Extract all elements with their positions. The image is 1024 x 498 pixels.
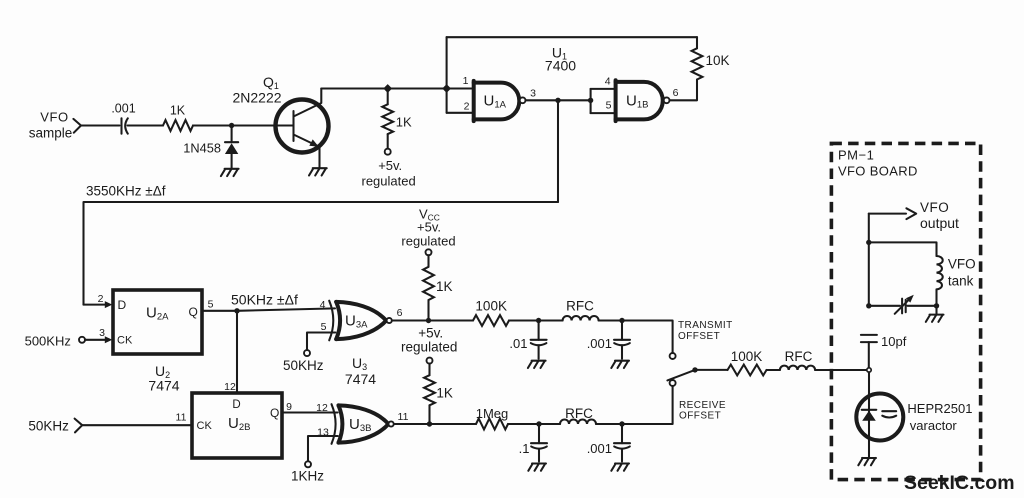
svg-text:RFC: RFC (566, 298, 594, 313)
capacitor .1 (538, 424, 540, 443)
wire switch arm (667, 370, 695, 381)
svg-text:100K: 100K (731, 349, 763, 364)
wire U2A pin3 CK (85, 339, 105, 341)
resistor 1Meg (476, 419, 508, 430)
wire R1 to Q1 base (193, 124, 293, 126)
wire 3550KHz rail (84, 202, 559, 305)
wire 1K to node lower (428, 405, 430, 424)
wire collector rail (321, 87, 473, 89)
node feedback junction (442, 84, 451, 93)
svg-text:varactor: varactor (910, 418, 958, 433)
wire node to diode (231, 126, 233, 142)
wire RFC into board (815, 369, 867, 371)
svg-text:50KHz ±Δf: 50KHz ±Δf (231, 292, 298, 308)
ground .001 transmit (611, 361, 629, 368)
svg-text:5: 5 (208, 299, 214, 311)
svg-text:6: 6 (397, 307, 403, 319)
node U1B output bubble (664, 97, 670, 103)
node U1B input junction (588, 98, 593, 103)
wire R2 to +5v terminal (387, 134, 389, 149)
wire feedback top (447, 36, 697, 38)
wire U2A pin2 D (84, 304, 106, 306)
wire junction to varactor (868, 372, 870, 457)
svg-text:1K: 1K (436, 279, 453, 294)
wire 1Meg to RFC (508, 423, 560, 425)
svg-text:10pf: 10pf (881, 334, 907, 349)
wire U3B pin13 (308, 436, 338, 461)
svg-text:sample: sample (29, 126, 73, 141)
wire U1B pin4 (591, 88, 616, 90)
svg-text:.001: .001 (587, 441, 612, 456)
svg-text:4: 4 (320, 299, 326, 311)
svg-text:D: D (118, 298, 127, 312)
node varactor junction (867, 368, 871, 372)
wire VFO output arrow (869, 213, 906, 215)
svg-text:50KHz: 50KHz (28, 419, 69, 434)
wire node to R2 (387, 89, 389, 105)
svg-text:OFFSET: OFFSET (678, 331, 720, 342)
capacitor .001 input (120, 118, 122, 133)
svg-text:5: 5 (606, 100, 612, 112)
inductor VFO tank (937, 256, 943, 289)
resistor 1K pullup (382, 104, 393, 134)
ground tank (935, 306, 937, 315)
flip-flop U2B (192, 393, 282, 458)
inductor RFC transmit (563, 316, 599, 321)
node .1 junction (536, 421, 541, 426)
svg-text:D: D (232, 399, 240, 411)
node switch transmit contact (670, 353, 676, 359)
resistor 1K vcc lower (424, 375, 435, 405)
svg-text:1Meg: 1Meg (476, 406, 509, 421)
svg-text:.001: .001 (111, 102, 135, 116)
wire U2A Q out (202, 308, 335, 310)
svg-text:5: 5 (321, 321, 327, 333)
svg-text:VFO: VFO (40, 110, 69, 125)
svg-text:10K: 10K (706, 53, 730, 68)
wire Vcc to 1K upper (427, 255, 429, 266)
node +5v terminal Q1 (385, 149, 391, 155)
capacitor 10pf (861, 335, 877, 342)
node Vcc terminal upper (426, 249, 432, 255)
svg-text:.001: .001 (587, 336, 612, 351)
node junction base/diode (229, 123, 234, 128)
svg-text:.1: .1 (519, 441, 530, 456)
node U1A output bubble (520, 97, 526, 103)
resistor 100K transmit (473, 315, 509, 326)
svg-text:7474: 7474 (345, 371, 376, 387)
op-amp U1B nand gate (616, 82, 663, 120)
node .001 junction transmit (619, 318, 624, 323)
node receive rail junction (427, 421, 432, 426)
capacitor .001 transmit (621, 321, 623, 340)
svg-text:6: 6 (673, 87, 679, 99)
svg-text:7474: 7474 (148, 378, 179, 394)
node .001 junction receive (619, 421, 624, 426)
node U3A output bubble (387, 318, 392, 323)
svg-text:11: 11 (398, 411, 409, 423)
capacitor .01 (538, 321, 540, 340)
node tank bottom junction (934, 303, 939, 308)
svg-text:SeekIC.com: SeekIC.com (904, 472, 1015, 494)
node pullup junction (383, 84, 392, 93)
ground .001 receive (611, 464, 629, 471)
wire C1 to R1 (128, 124, 164, 126)
ground emitter (309, 168, 327, 175)
op-amp U1A nand gate (474, 83, 520, 120)
svg-text:Q: Q (189, 305, 198, 319)
svg-text:+5v.: +5v. (378, 158, 402, 173)
wire 100K to RFC (509, 319, 563, 321)
svg-text:7400: 7400 (545, 58, 576, 74)
svg-text:4: 4 (605, 76, 611, 88)
svg-text:11: 11 (176, 412, 187, 424)
svg-text:regulated: regulated (401, 234, 455, 249)
wire 10pf bottom (868, 342, 870, 368)
inductor RFC receive (560, 420, 596, 425)
node switch receive contact (670, 380, 676, 386)
inductor RFC output (780, 366, 815, 370)
transistor Q1 2N2222 (276, 100, 329, 153)
svg-text:+5v.: +5v. (418, 325, 443, 340)
node U3B output bubble (389, 421, 394, 426)
wire input to C1 (81, 124, 120, 126)
wire 100K to RFC output (767, 369, 780, 371)
node .01 junction (536, 318, 541, 323)
wire U3A pin5 (307, 333, 335, 351)
wire 50KHz to CK (82, 424, 192, 426)
svg-text:Q: Q (270, 406, 279, 420)
wire 1K to node upper (427, 300, 429, 321)
wire U1B pin5 (591, 112, 616, 114)
svg-text:VFO BOARD: VFO BOARD (838, 164, 918, 179)
svg-text:12: 12 (316, 402, 328, 414)
resistor 10K feedback (692, 48, 703, 79)
wire VFO vertical (868, 214, 870, 306)
node varcap left junction (866, 303, 871, 308)
ground diode (221, 169, 239, 176)
svg-text:HEPR2501: HEPR2501 (907, 401, 972, 416)
svg-text:1K: 1K (170, 104, 186, 118)
node 500KHz terminal (79, 337, 85, 343)
node U1A output junction (555, 98, 560, 103)
wire U3B out (394, 423, 476, 425)
svg-text:1K: 1K (436, 386, 453, 401)
wire U1A pin2 (447, 112, 474, 114)
node 50KHz pin5 terminal (304, 350, 310, 356)
svg-text:RECEIVE: RECEIVE (679, 400, 726, 411)
svg-text:CK: CK (197, 420, 213, 432)
resistor 1K vcc upper (423, 267, 434, 300)
wire 10K top (696, 37, 698, 48)
svg-text:100K: 100K (475, 298, 507, 313)
svg-text:1N458: 1N458 (183, 141, 221, 156)
wire U1B input tie (590, 89, 592, 113)
capacitor variable trimmer (902, 299, 906, 314)
node 50KHz input chevron (75, 419, 83, 433)
node tank top junction (866, 240, 871, 245)
diode 1N458 (225, 141, 238, 143)
svg-text:3: 3 (530, 88, 536, 100)
node 1KHz terminal (305, 461, 311, 467)
capacitor .001 receive (621, 424, 623, 443)
wire feedback vertical left (446, 37, 448, 113)
svg-text:+5v.: +5v. (417, 220, 441, 235)
op-amp U3B xor gate (332, 404, 336, 444)
transistor HEPR2501 varactor (856, 394, 903, 441)
node switch pole (692, 367, 697, 372)
svg-text:2N2222: 2N2222 (232, 90, 281, 106)
svg-text:TRANSMIT: TRANSMIT (678, 320, 733, 331)
svg-text:1KHz: 1KHz (291, 469, 324, 484)
svg-text:9: 9 (286, 401, 292, 413)
wire U1A out to U1B (526, 99, 591, 101)
wire U2B Q to U3B (282, 411, 338, 413)
flip-flop U2A (113, 290, 202, 354)
wire tank bottom (935, 289, 937, 305)
wire Q to U2B D (236, 311, 238, 393)
wire tank top (869, 242, 937, 256)
node PM-1 VFO BOARD box (831, 143, 980, 479)
wire tank bottom rail (869, 305, 937, 307)
svg-text:PM−1: PM−1 (838, 148, 874, 163)
node U2A Q junction (234, 308, 239, 313)
ground .01 (528, 361, 546, 368)
resistor 100K output (728, 365, 767, 376)
svg-text:.01: .01 (509, 336, 527, 351)
svg-text:tank: tank (948, 274, 974, 289)
svg-text:regulated: regulated (401, 340, 457, 355)
svg-text:3550KHz ±Δf: 3550KHz ±Δf (86, 184, 166, 199)
node Vcc terminal lower (427, 358, 433, 364)
svg-text:500KHz: 500KHz (25, 333, 71, 348)
node transmit rail junction (426, 318, 431, 323)
svg-text:2: 2 (464, 101, 470, 113)
wire RFC to switch (599, 321, 673, 354)
svg-text:3: 3 (99, 327, 105, 339)
svg-text:OFFSET: OFFSET (679, 410, 721, 421)
node VFO sample input terminal (73, 119, 81, 133)
resistor 1K input (163, 120, 193, 131)
svg-text:1: 1 (463, 75, 469, 87)
svg-text:RFC: RFC (565, 406, 593, 421)
svg-text:1K: 1K (396, 115, 412, 130)
svg-text:regulated: regulated (361, 174, 415, 189)
wire Vcc to 1K lower (428, 364, 430, 376)
svg-text:VFO: VFO (920, 200, 949, 215)
wire RFC to switch receive (596, 386, 673, 424)
wire U3A out (392, 319, 473, 321)
wire pole to 100K (695, 369, 728, 371)
wire U1A out down (557, 100, 559, 202)
ground varactor (858, 458, 876, 465)
svg-text:VFO: VFO (948, 256, 976, 271)
wire U1B out to 10K (670, 80, 698, 101)
ground .1 (528, 464, 546, 471)
svg-text:2: 2 (98, 293, 104, 305)
svg-text:CK: CK (117, 335, 133, 347)
svg-text:output: output (920, 215, 959, 231)
svg-text:50KHz: 50KHz (283, 358, 324, 373)
svg-text:RFC: RFC (785, 349, 813, 364)
op-amp U3A xor gate (329, 301, 333, 341)
